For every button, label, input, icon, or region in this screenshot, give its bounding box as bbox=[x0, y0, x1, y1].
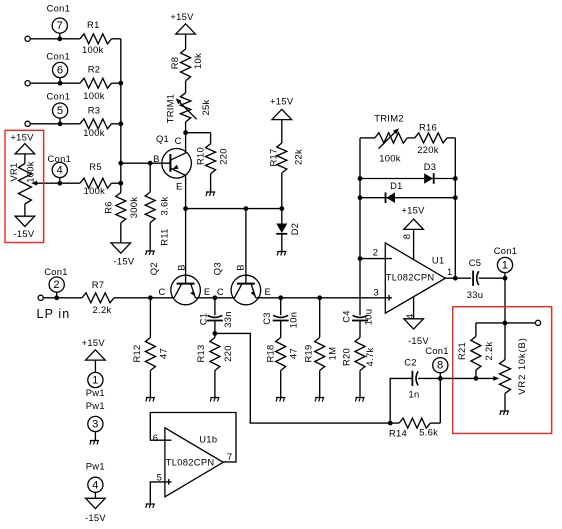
svg-text:5: 5 bbox=[157, 472, 163, 483]
junction bbox=[317, 295, 322, 300]
svg-text:4: 4 bbox=[92, 479, 99, 491]
ground (R18) bbox=[276, 398, 285, 402]
junction (Q1 collector node) bbox=[183, 130, 188, 135]
svg-text:R8: R8 bbox=[169, 57, 180, 70]
resistor R13 220 bbox=[214, 333, 216, 337]
capacitor C3 10n bbox=[280, 298, 282, 316]
resistor R16 220k bbox=[415, 133, 447, 143]
junction (pin2 node) bbox=[358, 256, 363, 261]
resistor R6 300k bbox=[120, 183, 122, 192]
resistor R20 4.7k bbox=[355, 338, 365, 371]
wire bbox=[114, 297, 174, 299]
svg-text:Con1: Con1 bbox=[46, 50, 70, 61]
ground (R10) bbox=[206, 192, 215, 196]
wire: tap to R14/C2 bbox=[215, 333, 390, 423]
ground (R13) bbox=[210, 398, 219, 402]
ground (R11) bbox=[146, 251, 155, 255]
trimmer TRIM2 100k bbox=[375, 133, 407, 143]
power +15V (Pw1 pin1) bbox=[86, 350, 106, 360]
svg-text:R6: R6 bbox=[102, 201, 113, 214]
wire bbox=[447, 137, 455, 139]
connector Con1 pin 1 bbox=[497, 257, 512, 272]
svg-text:100k: 100k bbox=[24, 161, 35, 183]
svg-text:1: 1 bbox=[92, 375, 99, 387]
wire bbox=[186, 132, 211, 134]
junction bbox=[148, 295, 153, 300]
ground (D2) bbox=[277, 252, 286, 256]
op-amp U1b TL082CPN (section b) bbox=[165, 428, 223, 497]
svg-text:R10: R10 bbox=[195, 147, 206, 165]
svg-text:D1: D1 bbox=[390, 180, 403, 191]
wire bbox=[418, 377, 476, 379]
svg-text:2: 2 bbox=[53, 279, 60, 291]
svg-text:1: 1 bbox=[447, 266, 453, 277]
resistor R5 100k bbox=[80, 178, 112, 188]
wire bbox=[476, 322, 505, 324]
connector Con1 pin 6 bbox=[53, 62, 68, 77]
svg-text:E: E bbox=[204, 286, 211, 297]
junction bbox=[278, 295, 283, 300]
wire bbox=[112, 182, 121, 184]
svg-text:D2: D2 bbox=[289, 223, 300, 236]
resistor R10 220 bbox=[210, 133, 212, 144]
junction bbox=[388, 421, 393, 426]
connector Con1 pin 5 bbox=[53, 103, 68, 118]
svg-text:C: C bbox=[175, 135, 182, 146]
resistor R18 47 bbox=[276, 338, 286, 371]
junction bbox=[358, 195, 363, 200]
svg-text:7: 7 bbox=[227, 451, 233, 462]
svg-text:300k: 300k bbox=[128, 197, 139, 219]
ground (R20) bbox=[355, 398, 364, 402]
power -15V (U1 pin 4) bbox=[413, 296, 415, 318]
svg-text:R14: R14 bbox=[389, 427, 407, 438]
junction bbox=[358, 176, 363, 181]
wire (Q3 E to op-amp +) bbox=[256, 297, 392, 299]
svg-text:220: 220 bbox=[222, 345, 233, 362]
svg-text:TRIM1: TRIM1 bbox=[165, 94, 176, 124]
connector Con1 pin 8 bbox=[433, 358, 448, 373]
svg-text:B: B bbox=[235, 264, 246, 271]
terminal row2 input bbox=[25, 81, 30, 86]
svg-text:C2: C2 bbox=[404, 357, 417, 368]
svg-text:C5: C5 bbox=[469, 257, 482, 268]
ground (U1b pin5) bbox=[146, 504, 155, 508]
junction bbox=[474, 376, 479, 381]
svg-text:Con1: Con1 bbox=[44, 266, 68, 277]
diode D1 bbox=[360, 197, 455, 199]
wire bbox=[112, 123, 121, 125]
svg-text:Q3: Q3 bbox=[212, 262, 223, 275]
svg-text:Pw1: Pw1 bbox=[86, 400, 105, 411]
svg-text:TRIM2: TRIM2 bbox=[374, 113, 404, 124]
wire bbox=[439, 378, 441, 423]
svg-text:4: 4 bbox=[57, 165, 64, 177]
svg-text:8: 8 bbox=[401, 234, 412, 240]
connector Con1 pin 7 bbox=[52, 18, 67, 33]
transistor Q1 (PNP) bbox=[162, 149, 192, 179]
svg-text:10u: 10u bbox=[363, 309, 374, 326]
svg-text:Con1: Con1 bbox=[494, 245, 518, 256]
svg-text:7: 7 bbox=[57, 20, 64, 32]
svg-text:+15V: +15V bbox=[401, 205, 425, 216]
svg-text:B: B bbox=[153, 153, 160, 164]
svg-text:R11: R11 bbox=[158, 228, 169, 245]
svg-text:C4: C4 bbox=[341, 310, 352, 323]
resistor R21 2.2k bbox=[475, 323, 477, 337]
potentiometer VR1 100k bbox=[15, 144, 35, 154]
svg-text:22k: 22k bbox=[292, 149, 303, 165]
highlight box around VR2 bbox=[453, 307, 552, 434]
svg-text:R7: R7 bbox=[92, 279, 105, 290]
diode D2 bbox=[281, 209, 283, 224]
resistor R7 2.2k bbox=[82, 293, 114, 303]
svg-text:R5: R5 bbox=[89, 161, 102, 172]
plus tick pin 3 bbox=[388, 295, 390, 301]
wire (Q2 E to Q3 C) bbox=[195, 297, 234, 299]
svg-text:R12: R12 bbox=[131, 344, 142, 362]
junction (base node) bbox=[118, 161, 123, 166]
wire bbox=[30, 82, 80, 84]
svg-text:100k: 100k bbox=[82, 44, 104, 55]
svg-text:100k: 100k bbox=[83, 127, 105, 138]
svg-text:5.6k: 5.6k bbox=[419, 426, 438, 437]
svg-text:3: 3 bbox=[92, 419, 99, 431]
svg-text:R20: R20 bbox=[341, 348, 352, 366]
svg-text:100k: 100k bbox=[83, 90, 105, 101]
capacitor C2 1n bbox=[411, 371, 413, 386]
svg-text:8: 8 bbox=[437, 360, 444, 372]
svg-text:4.7k: 4.7k bbox=[364, 348, 375, 367]
svg-text:+15V: +15V bbox=[82, 337, 106, 348]
svg-text:R17: R17 bbox=[268, 148, 279, 166]
svg-text:Pw1: Pw1 bbox=[86, 461, 105, 472]
svg-text:33u: 33u bbox=[467, 289, 484, 300]
wire bbox=[390, 378, 412, 423]
wire bbox=[112, 38, 121, 40]
svg-text:R21: R21 bbox=[456, 342, 467, 360]
svg-text:E: E bbox=[265, 286, 272, 297]
junction (output node) bbox=[453, 276, 458, 281]
svg-text:R13: R13 bbox=[195, 344, 206, 362]
svg-text:3: 3 bbox=[373, 287, 379, 298]
svg-text:C1: C1 bbox=[198, 313, 209, 326]
wire bbox=[360, 137, 375, 139]
terminal row3 input bbox=[25, 121, 30, 126]
wire: pin 2 (inverting input) bbox=[360, 258, 392, 260]
svg-text:47: 47 bbox=[288, 348, 299, 359]
power -15V (VR1) bbox=[15, 216, 35, 226]
svg-text:2: 2 bbox=[373, 247, 379, 258]
resistor R3 100k bbox=[80, 119, 112, 129]
capacitor C1 33n bbox=[214, 298, 216, 316]
svg-text:E: E bbox=[176, 180, 183, 191]
svg-text:Q1: Q1 bbox=[156, 133, 169, 144]
svg-text:C: C bbox=[158, 286, 165, 297]
junction bbox=[118, 121, 123, 126]
wire: bus to Q1 base bbox=[121, 162, 171, 164]
resistor R19 1M bbox=[319, 298, 321, 338]
power +15V (U1 pin 8) bbox=[404, 219, 424, 229]
svg-text:Con1: Con1 bbox=[46, 91, 70, 102]
connector Pw1 pin 1 bbox=[88, 372, 103, 387]
svg-text:R16: R16 bbox=[419, 121, 437, 132]
capacitor C4 10u bbox=[353, 315, 368, 317]
svg-text:33n: 33n bbox=[222, 311, 233, 328]
svg-text:+15V: +15V bbox=[10, 132, 34, 143]
svg-text:R18: R18 bbox=[264, 344, 275, 362]
wire: U1b feedback loop pin6-pin7 bbox=[150, 413, 236, 462]
terminal output bbox=[535, 320, 540, 325]
wire bbox=[505, 322, 535, 324]
wiper wire of VR1 bbox=[33, 182, 80, 184]
svg-text:VR1: VR1 bbox=[8, 162, 19, 181]
junction (C1/R13 tap) bbox=[213, 331, 218, 336]
terminal LP in bbox=[38, 295, 43, 300]
power -15V (R6) bbox=[111, 243, 131, 253]
wiper wire of VR2 bbox=[476, 377, 497, 379]
wire bbox=[30, 123, 80, 125]
svg-text:-15V: -15V bbox=[85, 512, 106, 523]
connector Con1 pin 2 bbox=[49, 277, 64, 292]
transistor Q2 (NPN) bbox=[185, 209, 187, 284]
svg-text:6: 6 bbox=[153, 432, 159, 443]
power -15V (Pw1 pin4) bbox=[86, 498, 106, 508]
wire: output pin 1 bbox=[445, 277, 471, 279]
svg-text:Con1: Con1 bbox=[47, 153, 71, 164]
svg-text:U1: U1 bbox=[432, 255, 445, 266]
svg-text:3.6k: 3.6k bbox=[158, 197, 169, 216]
junction bbox=[118, 81, 123, 86]
highlight box around VR1 bbox=[5, 130, 44, 242]
svg-text:TL082CPN: TL082CPN bbox=[166, 457, 215, 468]
svg-text:R1: R1 bbox=[87, 19, 100, 30]
svg-text:B: B bbox=[176, 264, 187, 271]
junction bbox=[279, 206, 284, 211]
svg-text:6: 6 bbox=[57, 65, 64, 77]
svg-text:1M: 1M bbox=[327, 347, 338, 361]
wire bbox=[30, 38, 80, 40]
wire bbox=[112, 82, 121, 84]
connector Con1 pin 4 bbox=[52, 162, 67, 177]
svg-text:220: 220 bbox=[218, 148, 229, 165]
wire: pin 5 (+ input) to ground bbox=[150, 482, 171, 504]
svg-text:C3: C3 bbox=[261, 312, 272, 325]
svg-text:47: 47 bbox=[157, 348, 168, 359]
resistor R2 100k bbox=[80, 78, 112, 88]
svg-text:+15V: +15V bbox=[270, 96, 294, 107]
transistor Q3 (NPN) bbox=[245, 209, 247, 284]
ground (R19) bbox=[315, 398, 324, 402]
terminal row1 input bbox=[25, 36, 30, 41]
svg-text:5: 5 bbox=[57, 105, 64, 117]
svg-text:10k: 10k bbox=[192, 53, 203, 69]
junction bbox=[118, 181, 123, 186]
wire bbox=[479, 277, 505, 279]
svg-text:R3: R3 bbox=[88, 105, 101, 116]
wire: Q1 emitter row bbox=[186, 208, 282, 210]
svg-text:25k: 25k bbox=[200, 99, 211, 115]
resistor R17 22k bbox=[272, 109, 292, 119]
svg-text:1n: 1n bbox=[408, 389, 419, 400]
ground (Pw1 pin3) bbox=[90, 441, 99, 445]
diode D3 bbox=[360, 178, 455, 180]
svg-text:220k: 220k bbox=[417, 144, 439, 155]
junction bbox=[213, 295, 218, 300]
svg-text:Q2: Q2 bbox=[148, 262, 159, 275]
capacitor C5 33u bbox=[472, 271, 474, 286]
resistor R12 47 bbox=[149, 298, 151, 338]
wire bbox=[120, 39, 122, 184]
svg-text:C: C bbox=[217, 286, 224, 297]
resistor R11 3.6k bbox=[149, 163, 151, 192]
wire bbox=[407, 137, 414, 139]
wire: feedback left rail bbox=[359, 138, 361, 315]
junction bbox=[244, 206, 249, 211]
svg-text:Con1: Con1 bbox=[425, 345, 449, 356]
ground (VR2) bbox=[500, 411, 509, 415]
svg-text:+15V: +15V bbox=[170, 11, 194, 22]
svg-text:D3: D3 bbox=[424, 161, 437, 172]
potentiometer VR2 10k(B) bbox=[504, 323, 506, 360]
svg-text:Pw1: Pw1 bbox=[86, 387, 105, 398]
svg-text:2.2k: 2.2k bbox=[483, 342, 494, 361]
junction bbox=[453, 176, 458, 181]
resistor R1 100k bbox=[80, 34, 112, 44]
op-amp U1 TL082CPN (section a) bbox=[385, 243, 445, 313]
svg-text:VR2 10k(B): VR2 10k(B) bbox=[516, 337, 527, 394]
svg-text:R19: R19 bbox=[303, 344, 314, 362]
svg-text:U1b: U1b bbox=[199, 434, 217, 445]
svg-text:100k: 100k bbox=[84, 185, 106, 196]
svg-text:-15V: -15V bbox=[13, 228, 34, 239]
svg-text:TL082CPN: TL082CPN bbox=[386, 272, 435, 283]
resistor R14 5.6k bbox=[390, 422, 399, 424]
resistor R8 10k bbox=[185, 81, 187, 93]
svg-text:-15V: -15V bbox=[113, 256, 134, 267]
svg-text:10n: 10n bbox=[288, 312, 299, 329]
junction bbox=[183, 206, 188, 211]
trimmer TRIM1 25k bbox=[185, 122, 187, 133]
power +15V (R8) bbox=[176, 24, 196, 34]
wire: feedback right rail bbox=[454, 138, 456, 278]
svg-text:100k: 100k bbox=[379, 153, 401, 164]
wire bbox=[504, 278, 506, 323]
svg-text:Con1: Con1 bbox=[47, 3, 71, 14]
svg-text:R2: R2 bbox=[88, 64, 101, 75]
wire bbox=[43, 297, 82, 299]
svg-text:2.2k: 2.2k bbox=[93, 304, 112, 315]
svg-text:LP in: LP in bbox=[37, 307, 71, 321]
junction bbox=[453, 195, 458, 200]
ground (R12) bbox=[146, 398, 155, 402]
junction bbox=[503, 321, 508, 326]
svg-text:1: 1 bbox=[502, 260, 509, 272]
